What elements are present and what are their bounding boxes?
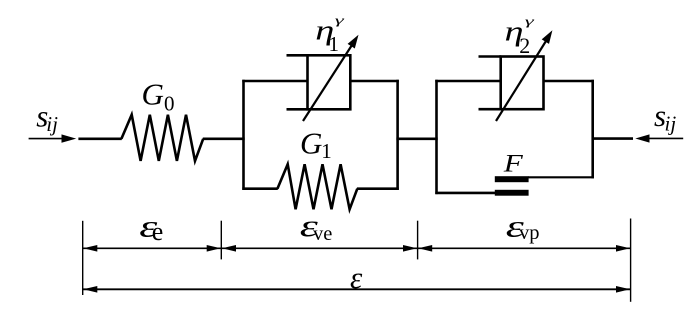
svg-text:1: 1 xyxy=(329,32,340,56)
svg-text:F: F xyxy=(503,151,524,178)
svg-text:γ: γ xyxy=(525,14,535,28)
svg-text:ij: ij xyxy=(46,112,58,136)
svg-text:G: G xyxy=(300,126,322,161)
svg-text:1: 1 xyxy=(321,139,332,163)
svg-text:ve: ve xyxy=(313,223,332,245)
svg-text:e: e xyxy=(152,217,164,246)
svg-text:2: 2 xyxy=(519,33,530,58)
svg-text:0: 0 xyxy=(164,92,175,116)
svg-text:γ: γ xyxy=(335,13,345,27)
svg-text:ij: ij xyxy=(665,111,677,135)
svg-text:G: G xyxy=(142,77,164,112)
svg-text:vp: vp xyxy=(519,222,540,244)
svg-text:ε: ε xyxy=(350,260,363,295)
